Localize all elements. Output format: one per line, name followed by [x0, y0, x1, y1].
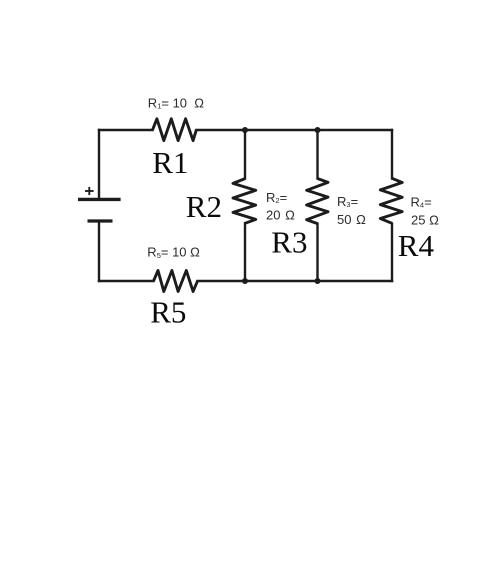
svg-text:R5: R5	[150, 295, 186, 330]
svg-text:R3=: R3=	[337, 194, 358, 209]
wire top-left horizontal	[99, 129, 153, 131]
wire R4 top lead (right vertical)	[391, 130, 393, 179]
node junction dot bottom R2	[242, 278, 248, 284]
resistor R2	[233, 179, 256, 224]
wire R2 top lead	[244, 130, 246, 179]
battery V1 negative plate	[88, 219, 113, 222]
wire R2 bottom lead	[244, 223, 246, 281]
svg-text:R1: R1	[152, 145, 188, 180]
wire R4 bottom lead (right vertical)	[391, 224, 393, 281]
wire left vertical battery bottom	[98, 222, 100, 281]
resistor R5	[154, 271, 198, 292]
svg-text:R1= 10 Ω: R1= 10 Ω	[148, 95, 204, 110]
battery plus sign	[85, 187, 94, 195]
wire R3 bottom lead	[316, 224, 318, 281]
node junction dot top R2	[242, 127, 248, 133]
node junction dot bottom R3	[315, 278, 321, 284]
svg-text:R5= 10 Ω: R5= 10 Ω	[147, 245, 200, 260]
wire top horizontal right of R1	[196, 129, 392, 131]
svg-text:R2: R2	[186, 189, 222, 224]
resistor R3	[307, 179, 328, 224]
svg-text:20 Ω: 20 Ω	[266, 208, 295, 223]
resistor R4	[380, 178, 402, 223]
svg-text:R3: R3	[271, 225, 307, 260]
wire left vertical battery top	[98, 130, 100, 198]
node junction dot top R3	[315, 127, 321, 133]
svg-text:50 Ω: 50 Ω	[337, 212, 366, 227]
battery V1 positive plate	[78, 198, 121, 201]
wire bottom horizontal right of R5	[198, 280, 393, 282]
svg-text:R2=: R2=	[266, 190, 287, 205]
resistor R1	[153, 119, 197, 141]
svg-text:25 Ω: 25 Ω	[411, 213, 439, 228]
svg-text:R4=: R4=	[411, 195, 432, 210]
wire bottom-left horizontal	[99, 280, 154, 282]
wire R3 top lead	[316, 130, 318, 179]
svg-text:R4: R4	[398, 228, 435, 263]
